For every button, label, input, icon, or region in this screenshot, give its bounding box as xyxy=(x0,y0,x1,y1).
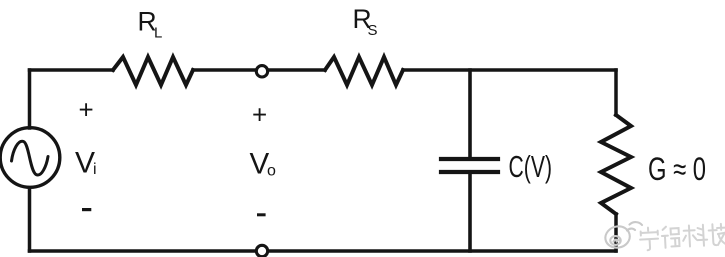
wire node to RS xyxy=(268,68,325,72)
resistor G (vertical) xyxy=(601,115,631,214)
wire capacitor top lead xyxy=(468,70,472,157)
wire left vertical below source xyxy=(28,188,32,251)
wire bottom xyxy=(30,249,617,253)
wire left vertical above source xyxy=(28,70,32,128)
label - of Vi xyxy=(82,208,91,211)
wire right vertical below resistor G xyxy=(614,214,618,251)
svg-text:S: S xyxy=(368,22,378,39)
wire RS to top-right corner xyxy=(403,68,616,72)
label RL xyxy=(138,7,163,42)
label Vo xyxy=(250,148,277,181)
watermark logo (weibo-like eye) xyxy=(605,222,642,248)
svg-text:i: i xyxy=(93,161,97,178)
wire top left segment xyxy=(30,68,114,72)
svg-text:G ≈ 0: G ≈ 0 xyxy=(648,151,706,187)
source V1 circle xyxy=(0,128,60,188)
resistor RS xyxy=(325,57,403,85)
resistor RL xyxy=(113,57,193,85)
node Vo bottom terminal xyxy=(256,245,267,256)
label - of Vo xyxy=(257,213,266,216)
source sine wave xyxy=(12,141,49,175)
node Vo top terminal xyxy=(256,66,267,77)
capacitor C(V) plates xyxy=(441,159,498,172)
svg-text:+: + xyxy=(79,95,94,125)
wire RL to node Vo xyxy=(193,68,256,72)
wire right vertical above resistor G xyxy=(614,70,618,115)
svg-text:V: V xyxy=(75,147,95,180)
wire capacitor bottom lead xyxy=(468,174,472,251)
label RS xyxy=(353,4,378,39)
watermark text (CJK approx strokes) xyxy=(639,224,725,251)
svg-text:L: L xyxy=(154,25,162,42)
svg-text:C(V): C(V) xyxy=(509,149,553,184)
svg-text:o: o xyxy=(267,163,276,180)
svg-text:+: + xyxy=(252,100,267,130)
label Vi xyxy=(75,147,97,180)
